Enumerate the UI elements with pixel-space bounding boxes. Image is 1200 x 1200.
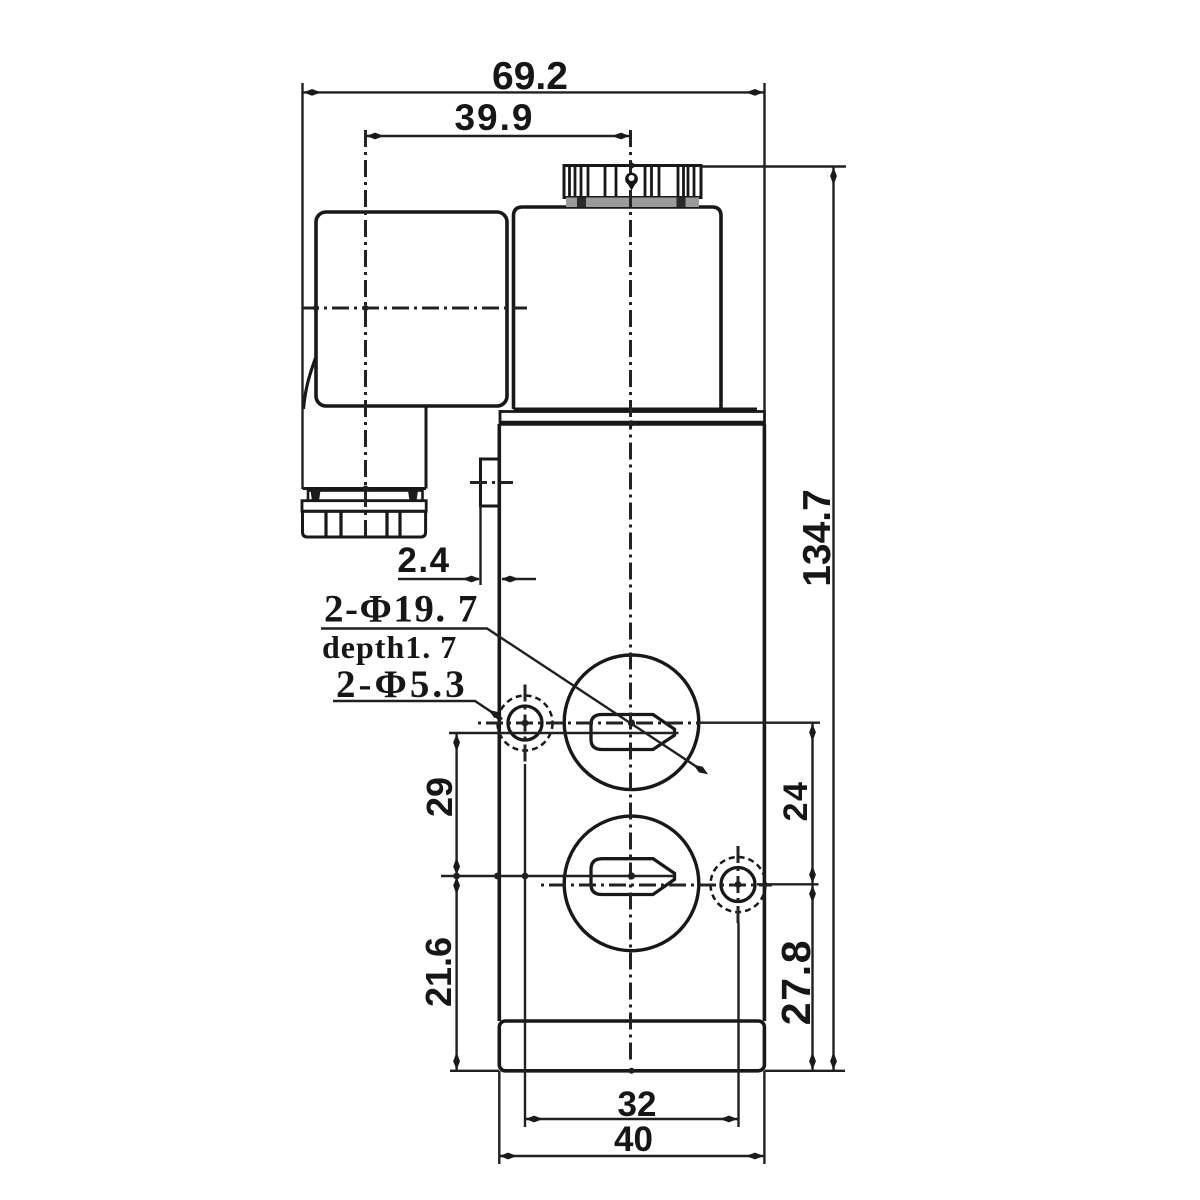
svg-text:29: 29: [419, 777, 460, 817]
svg-text:24: 24: [777, 781, 815, 822]
bolt 2 vertical center line: [737, 846, 740, 923]
extension line 21.6 bottom: [450, 1070, 499, 1072]
arrow 2.4 right points left: [502, 576, 517, 583]
bottom flange: [499, 1021, 764, 1071]
svg-text:32: 32: [618, 1085, 657, 1124]
port 1 horizontal center line: [476, 722, 700, 725]
tab center line: [470, 481, 513, 484]
svg-text:depth1. 7: depth1. 7: [322, 629, 457, 665]
coil bottom flange line: [514, 408, 758, 412]
arrow 24 top: [809, 724, 816, 739]
dimension line 2.4 left part: [398, 578, 479, 580]
arrow 27.8 bottom: [809, 1055, 816, 1070]
arrow 2.4 left points right: [465, 576, 480, 583]
dimension line 39.9: [366, 135, 631, 137]
connector neck: [303, 406, 427, 489]
bolt hole 2 washer dashed: [711, 857, 766, 912]
dimension line 2.4 right part: [502, 578, 536, 580]
extension line bolt2 down: [737, 923, 739, 1127]
cable boot curve: [304, 358, 316, 409]
svg-text:2-Φ5.3: 2-Φ5.3: [336, 663, 468, 706]
svg-text:21.6: 21.6: [418, 937, 459, 1007]
coil retaining nut knurled: [564, 166, 701, 198]
dimension line 40: [499, 1155, 764, 1157]
slot in port 1: [591, 715, 675, 750]
valve top plate: [500, 412, 765, 425]
nut bottom gray band: [566, 198, 699, 208]
arrow 69.2 left: [304, 89, 319, 96]
arrow 39.9 right: [615, 133, 630, 140]
connector pin band 2: [302, 501, 426, 512]
port circle 2: [564, 816, 699, 951]
arrow 29 bottom: [453, 860, 460, 875]
dimension line 29: [455, 733, 457, 876]
dimension line 21.6: [455, 876, 457, 1071]
leader underline phi19.7: [321, 629, 700, 770]
arrow leader 19.7: [694, 763, 710, 777]
extension line 40 left: [498, 1071, 500, 1164]
center lines dash-dot: [302, 130, 772, 1062]
svg-text:39.9: 39.9: [454, 97, 534, 138]
solenoid coil body: [514, 207, 722, 409]
band 1 tick right: [408, 491, 418, 501]
extension line hole1 right to 24: [700, 722, 820, 724]
arrow 134.7 top: [830, 168, 837, 183]
main vertical center line lower: [629, 424, 632, 1062]
arrowheads: [304, 89, 837, 1159]
extension line 69.2 left: [301, 83, 303, 489]
arrow 40 right: [749, 1153, 764, 1160]
nut center indicator teardrop: [625, 173, 638, 191]
extension tab left edge down: [479, 506, 481, 585]
dimension line 24: [811, 723, 813, 885]
band 1 tick left: [311, 491, 321, 501]
arrow 21.6 bottom: [453, 1055, 460, 1070]
nut knurl lines: [570, 166, 695, 198]
arrow 69.2 right: [749, 89, 764, 96]
dimension texts: [322, 55, 839, 1159]
connector pin band 1: [308, 491, 423, 501]
extension line hole1 (A): [449, 732, 679, 734]
dimension line 134.7: [832, 167, 834, 1071]
dimension line 69.2: [303, 91, 765, 93]
band 3 knurl lines: [326, 511, 400, 537]
svg-text:134.7: 134.7: [796, 489, 839, 587]
extension line 134.7 top: [701, 165, 846, 167]
extension line bottom right: [765, 1070, 846, 1072]
arrow leader 5.3: [489, 708, 505, 722]
svg-text:2.4: 2.4: [397, 541, 450, 580]
arrow 24 bottom: [809, 868, 816, 883]
dimension and extension lines: [303, 83, 847, 1164]
svg-text:2-Φ19. 7: 2-Φ19. 7: [324, 588, 479, 631]
connector vertical center line: [364, 130, 367, 540]
dimension line 32: [525, 1118, 739, 1120]
arrow 40 left: [500, 1153, 515, 1160]
valve top plate thick bottom: [499, 421, 765, 426]
svg-text:27.8: 27.8: [773, 939, 819, 1026]
arrow 39.9 left: [367, 133, 382, 140]
bolt 1 vertical center line: [524, 683, 527, 764]
extension line 40 right: [763, 1071, 765, 1164]
dimension line 27.8: [811, 884, 813, 1071]
arrow 32 left: [526, 1116, 541, 1123]
arrow 134.7 bottom: [830, 1055, 837, 1070]
bolt hole 1 washer dashed: [498, 696, 553, 751]
bolt hole 1: [508, 706, 542, 740]
extension line bolt1 down: [524, 764, 526, 1127]
port 2 horizontal center line: [540, 884, 772, 887]
svg-text:69.2: 69.2: [492, 55, 568, 98]
port circle 1: [564, 655, 699, 790]
slot in port 2: [591, 859, 675, 895]
extension line hole2 left: [441, 875, 675, 877]
arrow 27.8 top: [809, 885, 816, 900]
mounting tab: [481, 459, 501, 506]
arrow 32 right: [723, 1116, 738, 1123]
bolt hole 2: [721, 868, 755, 902]
connector pin band 3 knurled: [303, 511, 426, 537]
svg-text:40: 40: [614, 1120, 653, 1159]
valve body outline: [499, 424, 764, 1021]
connector block housing: [316, 212, 507, 406]
extension line hole2 right: [757, 883, 819, 885]
arrow 29 top: [453, 734, 460, 749]
main vertical center line upper: [629, 130, 632, 424]
leader underline phi5.3: [333, 701, 502, 719]
arrow 21.6 top: [453, 877, 460, 892]
connector horizontal center line: [302, 307, 527, 310]
extension line 69.2 right: [763, 83, 765, 412]
